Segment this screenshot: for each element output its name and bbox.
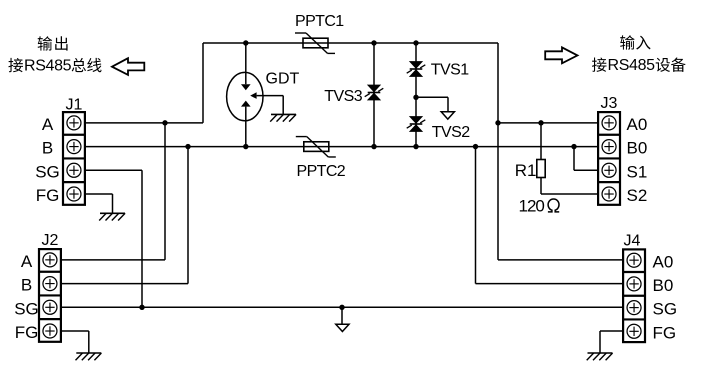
svg-text:B0: B0 — [627, 139, 648, 158]
GDT bottom lead — [245, 107, 247, 147]
svg-text:A: A — [42, 115, 54, 134]
junction — [243, 40, 248, 45]
svg-text:SG: SG — [14, 299, 39, 318]
wire J1.SG — [81, 169, 142, 171]
svg-text:R1: R1 — [515, 161, 537, 180]
signal ground at TVS — [441, 112, 454, 119]
GDT middle electrode — [250, 92, 256, 99]
gas discharge tube GDT — [227, 72, 263, 120]
junction — [243, 144, 248, 149]
接RS485设备 subtitle — [592, 58, 607, 72]
J4 pin FG — [627, 324, 641, 338]
wire B0 drop — [475, 147, 477, 284]
J1 pin B — [67, 140, 81, 154]
svg-text:FG: FG — [15, 323, 39, 342]
wire to J4.A0 — [498, 259, 627, 261]
J2 pin B — [43, 277, 57, 291]
接RS485总线 subtitle — [8, 58, 23, 72]
wire top A bus — [203, 42, 498, 44]
junction — [495, 120, 500, 125]
svg-text:GDT: GDT — [266, 70, 300, 87]
svg-text:FG: FG — [36, 186, 60, 205]
J4 pin B0 — [627, 277, 641, 291]
junction — [371, 144, 376, 149]
J1 pin A — [67, 116, 81, 130]
resistor R1 — [537, 160, 545, 178]
junction — [571, 144, 576, 149]
wire SG riser — [141, 170, 143, 307]
GDT top lead — [245, 43, 247, 84]
J1 pin SG — [67, 163, 81, 177]
junction — [371, 40, 376, 45]
junction — [413, 144, 418, 149]
wire A0 drop — [497, 43, 499, 260]
fuse PPTC2 — [304, 142, 329, 152]
wire B bus J1.B to J3.B0 — [81, 146, 602, 148]
connector J2 — [39, 249, 61, 342]
svg-text:SG: SG — [653, 300, 678, 319]
TVS diode TVS1 — [415, 43, 417, 147]
junction — [339, 305, 344, 310]
J2 pin FG — [43, 324, 57, 338]
J4 pin SG — [627, 301, 641, 315]
svg-text:S1: S1 — [627, 162, 648, 181]
wire SG bus J2.SG to J4.SG — [57, 306, 627, 308]
wire J2.FG — [57, 330, 89, 332]
svg-text:TVS2: TVS2 — [432, 124, 470, 141]
输出 title — [38, 36, 53, 50]
junction — [413, 40, 418, 45]
svg-text:S2: S2 — [627, 186, 648, 205]
svg-text:TVS1: TVS1 — [431, 62, 469, 79]
wire R1 bottom to J3.S2 — [540, 178, 542, 195]
J3 pin B0 — [602, 140, 616, 154]
wire R1 top — [540, 123, 542, 160]
svg-text:A0: A0 — [627, 115, 648, 134]
J2 pin SG — [43, 300, 57, 314]
ground at J2.FG — [76, 352, 101, 354]
ground at J4.FG — [588, 352, 613, 354]
connector J1 — [63, 112, 85, 205]
wire J1.FG — [81, 193, 112, 195]
J2 pin A — [43, 253, 57, 267]
J1 pin FG — [67, 187, 81, 201]
svg-text:RS485: RS485 — [24, 57, 72, 74]
wire A riser — [202, 43, 204, 123]
svg-text:J3: J3 — [601, 95, 618, 112]
svg-text:J1: J1 — [66, 96, 83, 113]
TVS midpoint ground branch — [416, 96, 448, 98]
J3 pin A0 — [602, 116, 616, 130]
ground at GDT — [271, 113, 296, 115]
svg-text:A: A — [21, 252, 33, 271]
svg-text:RS485: RS485 — [608, 57, 656, 74]
wire to J3.A0 — [498, 122, 602, 124]
svg-text:J2: J2 — [42, 232, 59, 249]
ground at J1.FG — [100, 212, 125, 214]
svg-text:PPTC1: PPTC1 — [295, 13, 344, 30]
junction — [162, 120, 167, 125]
svg-text:SG: SG — [35, 162, 60, 181]
wire J4.FG — [600, 330, 627, 332]
right block arrow — [545, 47, 577, 63]
connector J3 — [598, 112, 620, 205]
J3 pin S2 — [602, 187, 616, 201]
junction — [413, 95, 418, 100]
wire S1 branch — [573, 147, 575, 171]
svg-text:PPTC2: PPTC2 — [297, 163, 346, 180]
TVS diode TVS3 — [373, 43, 375, 147]
输入 title — [620, 35, 635, 49]
svg-text:J4: J4 — [624, 232, 641, 249]
svg-text:120: 120 — [519, 196, 545, 215]
connector J4 — [623, 249, 645, 342]
J3 pin S1 — [602, 163, 616, 177]
fuse PPTC1 — [303, 38, 328, 48]
svg-text:B: B — [42, 139, 53, 158]
svg-text:B0: B0 — [653, 276, 674, 295]
junction — [139, 305, 144, 310]
left block arrow — [112, 58, 144, 75]
svg-text:TVS3: TVS3 — [324, 88, 362, 105]
svg-text:B: B — [21, 276, 32, 295]
junction — [185, 144, 190, 149]
signal ground at SG bus — [341, 307, 343, 324]
junction — [538, 120, 543, 125]
TVS diode TVS2 — [410, 117, 422, 124]
wire to J4.B0 — [476, 283, 627, 285]
junction — [473, 144, 478, 149]
wire J2.B — [57, 283, 188, 285]
J4 pin A0 — [627, 253, 641, 267]
svg-text:FG: FG — [653, 323, 677, 342]
wire J1.A to corner — [81, 122, 203, 124]
svg-text:A0: A0 — [653, 252, 674, 271]
wire J2.A — [57, 259, 165, 261]
